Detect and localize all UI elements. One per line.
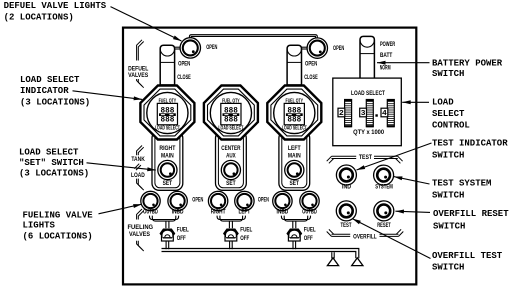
svg-text:CONTROL: CONTROL <box>432 120 470 130</box>
svg-text:OVERFILL RESET: OVERFILL RESET <box>433 209 509 219</box>
fueling valve light OUTBD <box>141 191 160 210</box>
svg-text:LOAD SELECT: LOAD SELECT <box>19 148 79 158</box>
svg-text:TEST: TEST <box>341 223 352 229</box>
svg-text:888: 888 <box>287 116 301 125</box>
leader: load select control <box>402 101 429 103</box>
fueling valve light INBD <box>273 191 292 210</box>
leader: battery power switch <box>377 62 430 64</box>
drain funnel symbol left <box>327 258 338 266</box>
svg-text:OPEN: OPEN <box>258 197 269 203</box>
svg-text:FUELING VALVE: FUELING VALVE <box>23 210 94 220</box>
svg-text:INDICATOR: INDICATOR <box>20 86 69 96</box>
wire: defuel toggle 1 to light 1 <box>175 48 182 50</box>
wire bracket from lights to fuel valve <box>281 216 310 222</box>
svg-text:SELECT: SELECT <box>432 109 465 119</box>
svg-text:INBD: INBD <box>172 210 184 216</box>
svg-text:LOAD SELECT: LOAD SELECT <box>282 125 307 131</box>
svg-text:MAIN: MAIN <box>161 154 174 160</box>
leader: overfill reset switch <box>395 211 430 212</box>
svg-text:MAIN: MAIN <box>288 154 301 160</box>
svg-text:SWITCH: SWITCH <box>432 69 464 79</box>
battery power switch toggle <box>360 36 374 78</box>
svg-text:LEFT: LEFT <box>239 210 251 216</box>
drain funnel symbol right <box>352 258 363 266</box>
svg-text:SWITCH: SWITCH <box>432 191 464 201</box>
wire: defuel light 1 to defuel light 2 <box>189 35 317 40</box>
svg-text:LOAD: LOAD <box>432 98 454 108</box>
svg-text:VALVES: VALVES <box>128 73 148 79</box>
svg-text:(3 LOCATIONS): (3 LOCATIONS) <box>20 97 90 107</box>
svg-text:QTY x 1000: QTY x 1000 <box>353 130 385 136</box>
svg-text:TEST SYSTEM: TEST SYSTEM <box>432 178 491 188</box>
wire: defuel toggle 2 to light 2 <box>302 48 309 50</box>
svg-text:FUELING: FUELING <box>128 225 154 231</box>
svg-text:OUTBD: OUTBD <box>143 210 158 216</box>
load select SET switch column RIGHT MAIN <box>152 131 183 190</box>
fueling valve light LEFT <box>235 191 254 210</box>
svg-text:BATT: BATT <box>380 53 393 59</box>
svg-text:LIGHTS: LIGHTS <box>23 221 56 231</box>
overfill test switch knob TEST <box>336 201 356 221</box>
svg-text:INBD: INBD <box>277 210 289 216</box>
svg-text:POWER: POWER <box>380 42 396 48</box>
svg-text:TEST: TEST <box>359 155 372 161</box>
wire: left drain stem <box>331 252 333 258</box>
svg-text:3: 3 <box>361 108 366 117</box>
wire bracket from lights to fuel valve <box>150 216 179 222</box>
svg-text:LOAD SELECT: LOAD SELECT <box>218 125 243 131</box>
wire bracket from lights to fuel valve <box>217 216 245 222</box>
svg-text:FUEL: FUEL <box>177 228 189 234</box>
svg-text:VALVES: VALVES <box>129 232 150 238</box>
fueling valve light RIGHT <box>208 191 227 210</box>
svg-text:SWITCH: SWITCH <box>433 221 465 231</box>
load select SET switch column CENTER AUX <box>216 131 247 190</box>
svg-text:LOAD SELECT: LOAD SELECT <box>155 125 180 131</box>
svg-text:SET: SET <box>163 181 173 187</box>
defuel valve toggle switch 1 <box>160 45 174 85</box>
svg-text:2: 2 <box>339 108 344 117</box>
FUELING VALVES group bracket <box>137 209 144 251</box>
panel border <box>123 28 416 285</box>
fueling valve light OUTBD <box>300 191 319 210</box>
svg-text:CLOSE: CLOSE <box>304 75 318 81</box>
svg-text:OPEN: OPEN <box>192 197 203 203</box>
svg-text:888: 888 <box>160 116 174 125</box>
svg-text:IND: IND <box>342 184 352 190</box>
TANK / LOAD group bracket <box>137 146 144 191</box>
svg-text:OUTBD: OUTBD <box>302 210 317 216</box>
svg-text:AUX: AUX <box>226 154 236 160</box>
test indicator switch knob IND <box>336 165 356 185</box>
svg-text:OVERFILL TEST: OVERFILL TEST <box>432 251 503 261</box>
leader: load select indicator <box>73 91 143 100</box>
svg-text:BATTERY POWER: BATTERY POWER <box>432 59 503 69</box>
leader: test system switch <box>394 177 430 184</box>
svg-text:OFF: OFF <box>240 236 249 242</box>
svg-text:NORM: NORM <box>380 66 391 72</box>
load select SET switch column LEFT MAIN <box>279 131 310 190</box>
defuel valve toggle switch 2 <box>287 45 301 85</box>
overfill reset switch knob RESET <box>374 201 394 221</box>
svg-text:RIGHT: RIGHT <box>211 210 226 216</box>
DEFUEL VALVES group bracket <box>137 40 144 88</box>
svg-text:CENTER: CENTER <box>221 146 241 152</box>
svg-text:OPEN: OPEN <box>305 61 317 67</box>
leader: load select set switch <box>87 163 156 170</box>
thumbwheel digit 2 <box>345 100 352 127</box>
svg-text:"SET" SWITCH: "SET" SWITCH <box>19 158 84 168</box>
svg-text:CLOSE: CLOSE <box>177 75 191 81</box>
svg-text:LEFT: LEFT <box>288 146 301 152</box>
svg-text:FUEL: FUEL <box>304 228 316 234</box>
svg-text:OVERFILL: OVERFILL <box>353 234 377 240</box>
fueling shutoff valve (FUEL OFF) <box>287 221 316 242</box>
wire: fuel valve bus <box>165 241 167 249</box>
svg-text:888: 888 <box>224 116 238 125</box>
svg-text:SET: SET <box>226 181 236 187</box>
TEST section header <box>327 155 403 163</box>
tank/load middle tick <box>134 164 139 169</box>
svg-text:OFF: OFF <box>304 236 313 242</box>
svg-text:RESET: RESET <box>377 223 391 229</box>
load select indicator octagon 2 <box>204 86 258 140</box>
thumbwheel digit 3 <box>366 100 373 127</box>
leader: test indicator switch <box>357 143 432 170</box>
fueling valve light INBD <box>168 191 187 210</box>
load select indicator octagon 3 <box>267 86 321 140</box>
svg-text:LOAD SELECT: LOAD SELECT <box>20 75 80 85</box>
svg-text:(3 LOCATIONS): (3 LOCATIONS) <box>19 168 89 178</box>
leader: overfill test switch <box>352 219 430 259</box>
svg-text:DEFUEL: DEFUEL <box>128 66 148 72</box>
load select control box <box>333 78 402 146</box>
svg-text:(6 LOCATIONS): (6 LOCATIONS) <box>23 232 93 242</box>
fueling shutoff valve (FUEL OFF) <box>160 221 189 242</box>
svg-text:OPEN: OPEN <box>333 46 344 52</box>
svg-text:TEST INDICATOR: TEST INDICATOR <box>432 138 508 148</box>
svg-text:SYSTEM: SYSTEM <box>375 184 393 190</box>
svg-text:FUEL: FUEL <box>240 228 252 234</box>
defuel valve light 1 (OPEN) <box>180 38 200 58</box>
svg-text:OFF: OFF <box>177 236 186 242</box>
svg-text:SET: SET <box>290 181 300 187</box>
svg-text:SWITCH: SWITCH <box>432 151 464 161</box>
fueling shutoff valve (FUEL OFF) <box>224 221 253 242</box>
svg-text:OPEN: OPEN <box>178 62 190 68</box>
leader: fueling valve lights <box>99 204 142 214</box>
load select indicator octagon 1 <box>140 86 194 140</box>
svg-text:LOAD: LOAD <box>131 173 145 179</box>
svg-text:LOAD SELECT: LOAD SELECT <box>351 91 385 97</box>
svg-text:SWITCH: SWITCH <box>432 263 464 273</box>
svg-text:DEFUEL VALVE LIGHTS: DEFUEL VALVE LIGHTS <box>4 1 107 11</box>
thumbwheel digit 4 <box>387 100 394 127</box>
svg-text:RIGHT: RIGHT <box>159 146 175 152</box>
OVERFILL section label <box>327 229 404 240</box>
svg-text:OPEN: OPEN <box>206 45 217 51</box>
leader: defuel valve lights <box>111 7 182 41</box>
decimal point <box>375 114 377 116</box>
test system switch knob SYSTEM <box>374 165 394 185</box>
svg-text:TANK: TANK <box>131 157 145 163</box>
svg-text:(2 LOCATIONS): (2 LOCATIONS) <box>4 13 74 23</box>
defuel valve light 2 (OPEN) <box>307 38 327 58</box>
